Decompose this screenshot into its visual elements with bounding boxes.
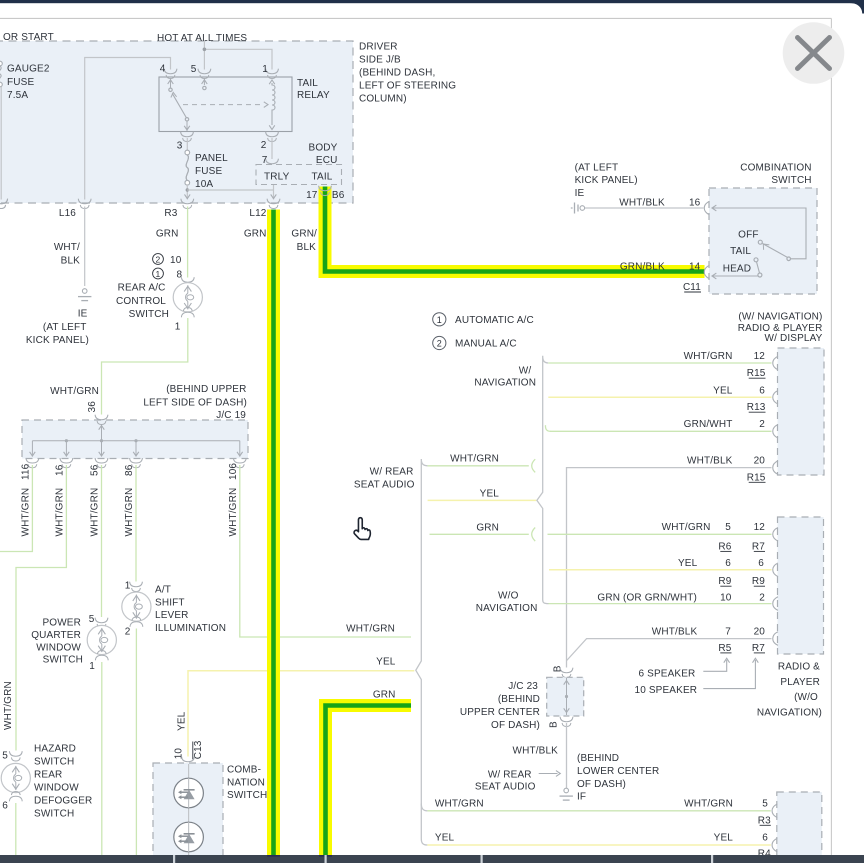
svg-text:10: 10 <box>174 748 185 760</box>
pin 1 connector <box>266 69 279 74</box>
svg-text:ILLUMINATION: ILLUMINATION <box>155 623 226 634</box>
rear A/C switch illumination bulb pin connector top <box>181 277 194 282</box>
svg-text:QUARTER: QUARTER <box>31 630 81 641</box>
svg-text:FUSE: FUSE <box>7 77 34 88</box>
svg-text:106: 106 <box>228 463 239 480</box>
TAIL contact <box>754 258 758 262</box>
svg-text:L12: L12 <box>249 208 266 219</box>
svg-text:7.5A: 7.5A <box>7 90 28 101</box>
svg-text:GRN/WHT: GRN/WHT <box>684 419 733 430</box>
svg-text:CONTROL: CONTROL <box>116 296 166 307</box>
svg-text:WHT/GRN: WHT/GRN <box>435 799 484 810</box>
pin 3 connector <box>181 132 194 137</box>
combination switch pin 16 connector <box>704 201 709 215</box>
wire WHT/GRN pin 106 to radio circuit <box>240 465 411 637</box>
top navy bar <box>0 0 864 3</box>
svg-text:R6: R6 <box>718 541 731 552</box>
combination switch internal wire <box>188 764 190 855</box>
connector L12 <box>267 199 280 204</box>
wire WHT/GRN pin 16 to hazard switch <box>16 465 66 751</box>
svg-text:COMB-: COMB- <box>227 764 261 775</box>
svg-text:6: 6 <box>2 801 8 812</box>
LED 1 combination switch <box>174 778 204 808</box>
svg-text:SWITCH: SWITCH <box>34 757 74 768</box>
radio w/o navigation connector box <box>778 517 824 654</box>
combination switch internal feed <box>712 208 807 259</box>
svg-text:1: 1 <box>262 64 268 75</box>
svg-text:36: 36 <box>87 401 98 413</box>
svg-text:(BEHIND: (BEHIND <box>577 753 619 764</box>
fuse GAUGE2 7.5A <box>0 61 2 66</box>
svg-text:SWITCH: SWITCH <box>227 790 267 801</box>
svg-text:WHT/: WHT/ <box>54 242 80 253</box>
svg-text:10: 10 <box>170 255 182 266</box>
svg-text:HOT AT ALL TIMES: HOT AT ALL TIMES <box>157 33 247 44</box>
switch arm to OFF <box>763 244 788 258</box>
close button <box>783 22 845 84</box>
svg-text:WINDOW: WINDOW <box>36 642 81 653</box>
lamp A/T shift lever illumination <box>122 592 151 621</box>
svg-text:W/: W/ <box>519 365 532 376</box>
svg-text:POWER: POWER <box>42 617 81 628</box>
connector B6 on highlighted wire <box>319 186 332 191</box>
svg-text:WHT/BLK: WHT/BLK <box>513 745 559 756</box>
junction connector J/C 23 box <box>547 677 584 716</box>
power quarter bulb top connector <box>95 618 108 623</box>
svg-text:IF: IF <box>577 791 586 802</box>
brace grouping navigation option wires <box>537 356 549 604</box>
svg-text:BODY: BODY <box>309 142 338 153</box>
connector R3 <box>181 199 194 204</box>
svg-text:W/ REAR: W/ REAR <box>370 466 414 477</box>
brace grouping w/ rear seat audio wires <box>416 459 428 845</box>
svg-text:OFF: OFF <box>738 229 758 240</box>
wire YEL to combination switch pin 10 <box>188 671 414 757</box>
highlighted wire GRN from L12 down <box>267 210 280 856</box>
wire WHT/BLK to radio pins 7/20 <box>567 639 772 661</box>
svg-text:DRIVER: DRIVER <box>359 41 398 52</box>
svg-text:TAIL: TAIL <box>297 78 318 89</box>
wire WHT/GRN rear-seat-audio upper <box>428 465 529 467</box>
svg-text:COLUMN): COLUMN) <box>359 94 407 105</box>
svg-text:RADIO &: RADIO & <box>778 661 820 672</box>
svg-text:WHT/GRN: WHT/GRN <box>228 488 239 537</box>
svg-text:116: 116 <box>20 463 31 480</box>
svg-text:PANEL: PANEL <box>195 153 228 164</box>
body ECU TRLY/TAIL box <box>256 165 342 185</box>
svg-text:OF DASH): OF DASH) <box>491 720 540 731</box>
svg-text:YEL: YEL <box>678 558 698 569</box>
relay switch throw to pin 3 <box>186 121 188 131</box>
junction connector J/C 19 box <box>22 420 248 459</box>
page card border <box>0 17 831 19</box>
svg-text:YEL: YEL <box>376 656 396 667</box>
svg-text:REAR: REAR <box>34 770 62 781</box>
combination switch pin 10 connector <box>182 757 195 762</box>
wire relay pin2 to body ECU pin 7 <box>271 138 273 159</box>
svg-text:SHIFT: SHIFT <box>155 597 185 608</box>
J/C19 input connector pin 36 <box>95 415 108 420</box>
wire hot-at-all-times feed to relay pins 5 and 1 <box>203 40 205 70</box>
svg-text:R7: R7 <box>752 541 765 552</box>
svg-text:LEFT OF STEERING: LEFT OF STEERING <box>359 81 456 92</box>
svg-text:(BEHIND DASH,: (BEHIND DASH, <box>359 67 435 78</box>
wire panel fuse branch to L12 <box>187 189 273 191</box>
J/C19 output connector pin 56 <box>95 458 108 463</box>
HEAD contact <box>758 273 762 277</box>
svg-text:B: B <box>549 721 560 728</box>
wire WHT/BLK L16 to ground IE <box>84 207 86 287</box>
svg-text:WINDOW: WINDOW <box>34 783 79 794</box>
pin 2 connector <box>266 132 279 137</box>
svg-text:6: 6 <box>759 385 765 396</box>
svg-text:1: 1 <box>89 661 95 672</box>
svg-text:W/O: W/O <box>498 590 519 601</box>
relay coil <box>272 83 275 125</box>
wire WHT/BLK to radio pin 20 <box>567 468 772 668</box>
J/C19 output connector pin 116 <box>26 458 39 463</box>
combination switch box <box>709 188 817 294</box>
connector at box edge far left <box>0 199 8 204</box>
svg-text:6: 6 <box>725 558 731 569</box>
svg-text:GRN (OR GRN/WHT): GRN (OR GRN/WHT) <box>597 592 697 603</box>
svg-text:NAVIGATION: NAVIGATION <box>476 603 538 614</box>
svg-text:A/T: A/T <box>155 585 171 596</box>
svg-text:OF DASH): OF DASH) <box>577 779 626 790</box>
svg-text:6: 6 <box>762 833 768 844</box>
wire relay pin3 to panel fuse <box>186 138 188 150</box>
svg-text:2: 2 <box>125 626 131 637</box>
svg-text:NAVIGATION: NAVIGATION <box>474 377 536 388</box>
svg-text:WHT/GRN: WHT/GRN <box>450 454 499 465</box>
svg-text:IE: IE <box>575 188 585 199</box>
switch pivot contact <box>787 257 791 261</box>
svg-text:YEL: YEL <box>177 711 188 731</box>
J/C19 output connector pin 86 <box>130 458 143 463</box>
svg-text:NATION: NATION <box>227 777 265 788</box>
svg-text:WHT/GRN: WHT/GRN <box>50 386 99 397</box>
svg-text:GRN: GRN <box>244 228 267 239</box>
svg-text:C13: C13 <box>193 740 204 759</box>
svg-text:10A: 10A <box>195 179 213 190</box>
svg-text:14: 14 <box>689 261 701 272</box>
power quarter bulb bottom connector <box>95 655 108 660</box>
svg-text:20: 20 <box>754 455 766 466</box>
relay TAIL RELAY <box>159 77 292 132</box>
svg-text:SEAT AUDIO: SEAT AUDIO <box>475 782 536 793</box>
wire below power quarter window switch <box>101 662 103 855</box>
A/T bulb top connector <box>130 582 143 587</box>
svg-text:(W/ NAVIGATION): (W/ NAVIGATION) <box>738 312 822 323</box>
ground IF behind lower center of dash <box>564 788 569 793</box>
svg-text:86: 86 <box>124 464 135 476</box>
legend circle 1 automatic A/C <box>433 313 446 326</box>
svg-text:REAR A/C: REAR A/C <box>118 282 166 293</box>
wire WHT/BLK J/C23 to ground IF <box>566 723 568 788</box>
radio connector arcs lower box <box>773 528 778 542</box>
J/C23 internal wire <box>566 678 568 715</box>
wire GRN (OR GRN/WHT) to radio pins 10/2 <box>549 603 772 605</box>
svg-text:WHT/GRN: WHT/GRN <box>124 488 135 537</box>
svg-text:R9: R9 <box>752 576 765 587</box>
svg-text:PLAYER: PLAYER <box>780 677 820 688</box>
svg-text:GAUGE2: GAUGE2 <box>7 64 50 75</box>
svg-text:WHT/GRN: WHT/GRN <box>684 799 733 810</box>
A/T bulb bottom connector <box>130 622 143 627</box>
svg-text:C11: C11 <box>683 282 701 293</box>
wire body ECU TRLY output to L12 <box>273 185 275 200</box>
rear A/C control switch illumination bulb <box>173 283 202 312</box>
highlighted wire GRN/BLK from body ECU B6 to combination switch <box>325 187 705 272</box>
svg-text:HAZARD: HAZARD <box>34 744 76 755</box>
J/C19 output connector pin 106 <box>233 458 246 463</box>
svg-text:5: 5 <box>762 799 768 810</box>
rear connector box <box>777 792 822 863</box>
svg-text:12: 12 <box>754 522 766 533</box>
svg-text:WHT/BLK: WHT/BLK <box>687 455 733 466</box>
svg-text:WHT/GRN: WHT/GRN <box>90 488 101 537</box>
legend circle 2 manual A/C <box>433 336 446 349</box>
pin 5 connector <box>198 69 211 74</box>
svg-text:2: 2 <box>156 254 161 264</box>
relay actuation dashed link <box>183 104 264 106</box>
svg-text:R5: R5 <box>718 643 731 654</box>
svg-text:1: 1 <box>175 321 181 332</box>
wire L16 riser to tail relay pin 4 <box>85 58 171 200</box>
svg-text:R15: R15 <box>747 472 766 483</box>
wire WHT/GRN to radio pins 5/12 <box>548 533 772 535</box>
svg-text:3: 3 <box>177 140 183 151</box>
svg-text:SWITCH: SWITCH <box>34 808 74 819</box>
body ECU pin 7 connector <box>266 159 279 164</box>
relay pin 5 contact <box>203 79 205 86</box>
wire WHT/GRN to connector R3 pin 5 <box>427 810 770 812</box>
svg-text:16: 16 <box>689 198 701 209</box>
svg-text:RELAY: RELAY <box>297 90 330 101</box>
svg-text:4: 4 <box>160 64 166 75</box>
svg-text:SIDE J/B: SIDE J/B <box>359 54 401 65</box>
svg-text:WHT/GRN: WHT/GRN <box>684 351 733 362</box>
svg-text:R13: R13 <box>747 402 766 413</box>
wire GRN rear-seat-audio to radio <box>430 533 529 535</box>
wire WHT/GRN to radio pin 12 <box>548 362 771 364</box>
junction dot panel fuse output <box>186 188 189 191</box>
OFF contact <box>758 240 762 244</box>
relay switch contact from pin 4 <box>170 79 172 88</box>
svg-text:YEL: YEL <box>714 833 734 844</box>
wire YEL to radio pin 6 <box>548 396 771 398</box>
ground IE at left kick panel <box>82 289 87 294</box>
svg-text:2: 2 <box>437 339 442 349</box>
svg-text:LEFT SIDE OF DASH): LEFT SIDE OF DASH) <box>143 397 247 408</box>
svg-text:TAIL: TAIL <box>312 172 333 183</box>
combination switch illumination box <box>153 763 223 863</box>
lamp hazard switch illumination <box>1 763 30 792</box>
wire YEL to radio pins 6/6 <box>549 569 772 571</box>
svg-text:W/ REAR: W/ REAR <box>488 769 532 780</box>
svg-text:WHT/BLK: WHT/BLK <box>619 198 665 209</box>
TAIL to HEAD link <box>757 262 760 273</box>
svg-text:6: 6 <box>758 558 764 569</box>
svg-text:IE: IE <box>78 308 88 319</box>
connector L16 <box>78 199 91 204</box>
svg-text:AUTOMATIC A/C: AUTOMATIC A/C <box>455 315 534 326</box>
svg-text:GRN: GRN <box>156 228 179 239</box>
relay switch arm <box>172 93 186 117</box>
svg-text:2: 2 <box>759 419 765 430</box>
svg-text:WHT/GRN: WHT/GRN <box>54 488 65 537</box>
svg-text:WHT/GRN: WHT/GRN <box>20 488 31 537</box>
svg-text:WHT/GRN: WHT/GRN <box>346 623 395 634</box>
svg-text:R3: R3 <box>758 815 771 826</box>
rear A/C bulb bottom connector <box>181 312 194 317</box>
svg-text:1: 1 <box>437 315 442 325</box>
svg-text:YEL: YEL <box>713 385 733 396</box>
svg-text:(AT LEFT: (AT LEFT <box>575 162 619 173</box>
svg-text:WHT/GRN: WHT/GRN <box>3 681 14 730</box>
svg-text:B6: B6 <box>332 190 345 201</box>
svg-text:20: 20 <box>754 627 766 638</box>
wire GRN/WHT to radio pin 2 <box>550 430 772 432</box>
svg-text:GRN/BLK: GRN/BLK <box>620 261 665 272</box>
radio connector arcs upper box <box>773 356 778 370</box>
svg-text:56: 56 <box>90 464 101 476</box>
svg-text:UPPER CENTER: UPPER CENTER <box>460 707 540 718</box>
svg-text:12: 12 <box>754 351 766 362</box>
svg-text:10: 10 <box>720 592 732 603</box>
svg-text:DEFOGGER: DEFOGGER <box>34 795 92 806</box>
svg-text:SWITCH: SWITCH <box>771 175 811 186</box>
svg-text:5: 5 <box>2 751 8 762</box>
svg-text:L16: L16 <box>59 208 76 219</box>
svg-text:(BEHIND UPPER: (BEHIND UPPER <box>166 384 246 395</box>
wire YEL to connector R4 pin 6 <box>427 844 770 846</box>
svg-text:NAVIGATION): NAVIGATION) <box>757 708 822 719</box>
svg-text:SWITCH: SWITCH <box>129 309 169 320</box>
svg-text:TRLY: TRLY <box>264 172 290 183</box>
wire WHT/GRN pin 56 to power quarter window switch <box>101 465 103 617</box>
svg-text:MANUAL A/C: MANUAL A/C <box>455 338 517 349</box>
svg-text:OR START: OR START <box>3 32 54 43</box>
svg-text:J/C 23: J/C 23 <box>508 681 538 692</box>
svg-text:5: 5 <box>725 522 731 533</box>
svg-text:YEL: YEL <box>435 833 455 844</box>
hazard bulb top connector <box>9 751 22 756</box>
J/C19 internal bus <box>101 424 103 441</box>
wire WHT/BLK ground to combination switch pin 16 <box>585 207 704 209</box>
combination switch pin 14 connector <box>704 265 709 279</box>
svg-text:BLK: BLK <box>61 255 81 266</box>
ground IE sideways symbol <box>571 207 573 209</box>
J/C19 output connector pin 16 <box>60 458 73 463</box>
svg-text:(BEHIND: (BEHIND <box>498 694 540 705</box>
wire below hazard switch <box>15 803 17 855</box>
pin 4 connector <box>164 69 177 74</box>
svg-text:LEVER: LEVER <box>155 610 189 621</box>
svg-text:KICK PANEL): KICK PANEL) <box>26 335 89 346</box>
wire panel fuse to R3 connector <box>186 185 188 199</box>
svg-text:LOWER CENTER: LOWER CENTER <box>577 766 659 777</box>
svg-text:2: 2 <box>759 592 765 603</box>
svg-text:YEL: YEL <box>480 488 500 499</box>
svg-text:SWITCH: SWITCH <box>43 655 83 666</box>
svg-text:GRN/: GRN/ <box>291 228 317 239</box>
wire rear A/C switch to J/C 19 <box>102 318 188 415</box>
green core GRN wire from L12 <box>271 210 276 856</box>
svg-text:(W/O: (W/O <box>794 692 818 703</box>
J/C23 exit connector <box>560 717 573 722</box>
svg-text:6 SPEAKER: 6 SPEAKER <box>639 668 696 679</box>
svg-text:5: 5 <box>191 64 197 75</box>
svg-text:SEAT AUDIO: SEAT AUDIO <box>354 480 415 491</box>
fuse PANEL 10A <box>185 150 190 155</box>
cursor pointer <box>354 518 370 540</box>
svg-text:HEAD: HEAD <box>723 263 751 274</box>
radio w/ navigation connector box <box>778 348 825 475</box>
svg-text:COMBINATION: COMBINATION <box>740 162 811 173</box>
svg-text:16: 16 <box>54 464 65 476</box>
option circle 1 automatic A/C pin 8 <box>153 268 164 279</box>
wire from GAUGE2 fuse to connector <box>0 87 2 200</box>
svg-text:KICK PANEL): KICK PANEL) <box>575 175 638 186</box>
svg-text:WHT/GRN: WHT/GRN <box>662 522 711 533</box>
wire WHT/GRN pin 116 exits left <box>0 465 32 552</box>
svg-text:(AT LEFT: (AT LEFT <box>43 322 87 333</box>
junction dot hot feed <box>203 48 207 52</box>
lamp power quarter window switch illumination <box>87 625 116 654</box>
svg-text:TAIL: TAIL <box>730 246 751 257</box>
wire WHT/GRN pin 86 to A/T shift lever illumination <box>135 465 137 582</box>
svg-text:W/ DISPLAY: W/ DISPLAY <box>765 333 823 344</box>
LED 2 combination switch <box>174 822 204 852</box>
svg-text:2: 2 <box>261 140 267 151</box>
wire YEL rear-seat-audio <box>428 499 537 501</box>
svg-text:1: 1 <box>156 269 161 279</box>
green core GRN/BLK wire <box>325 187 705 272</box>
svg-text:17: 17 <box>306 190 318 201</box>
wire below A/T illumination <box>135 629 137 856</box>
hazard bulb bottom connector <box>9 796 22 801</box>
svg-text:R3: R3 <box>164 208 177 219</box>
svg-text:WHT/BLK: WHT/BLK <box>652 627 698 638</box>
option circle 2 manual A/C pin 10 <box>153 254 164 265</box>
svg-text:7: 7 <box>725 627 731 638</box>
svg-text:5: 5 <box>89 614 95 625</box>
pin 14 internal line <box>712 275 759 277</box>
green core GRN branch wire <box>326 706 412 856</box>
svg-text:R15: R15 <box>747 368 766 379</box>
svg-text:GRN: GRN <box>476 522 499 533</box>
svg-text:RADIO & PLAYER: RADIO & PLAYER <box>738 323 823 334</box>
svg-text:R9: R9 <box>718 576 731 587</box>
highlighted wire GRN branch to radio brace <box>326 706 412 856</box>
wire GRN R3 to rear A/C control switch <box>187 207 189 278</box>
svg-text:FUSE: FUSE <box>195 166 222 177</box>
J/C23 entry connector <box>560 668 573 673</box>
svg-text:GRN: GRN <box>373 690 396 701</box>
bottom toolbar <box>0 855 864 863</box>
svg-text:R7: R7 <box>752 643 765 654</box>
svg-text:BLK: BLK <box>297 242 317 253</box>
svg-text:10 SPEAKER: 10 SPEAKER <box>635 685 698 696</box>
junction block: driver side J/B box (HOT AT ALL TIMES) <box>0 41 353 203</box>
